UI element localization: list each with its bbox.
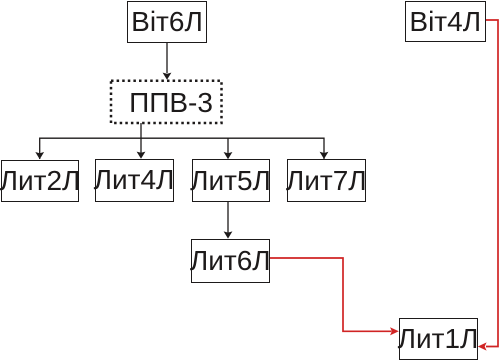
box Лит6Л [191,239,270,283]
dotted box ППВ-3 [111,81,222,123]
svg-text:ППВ-3: ППВ-3 [129,87,213,118]
arrowhead into Лит6Л [224,231,233,238]
box Лит2Л [1,160,79,202]
wire Лит5Л to Лит6Л [227,202,229,233]
box Віт4Л [405,1,486,42]
arrowhead into Лит7Л [320,152,329,159]
arrowhead into ППВ-3 [163,73,172,80]
box Лит4Л [95,159,174,203]
red arrowhead into Лит1Л right [478,342,487,350]
wire Віт6Л to ППВ-3 [166,43,168,73]
wire ППВ-3 to Лит4Л [140,123,142,153]
red wire Віт4Л to Лит1Л [485,20,498,347]
arrowhead into Лит2Л [35,152,44,159]
box Віт6Л [127,1,207,43]
box Лит1Л [399,318,478,360]
arrowhead into Лит5Л [224,152,233,159]
arrowhead into Лит4Л [137,152,146,159]
red wire Лит6Л to Лит1Л [270,258,392,331]
red arrowhead into Лит1Л left [390,327,399,335]
wire horizontal distribution line [40,138,324,159]
box Лит7Л [287,159,366,202]
wire branch to Лит5Л [227,138,229,154]
box Лит5Л [192,159,270,202]
